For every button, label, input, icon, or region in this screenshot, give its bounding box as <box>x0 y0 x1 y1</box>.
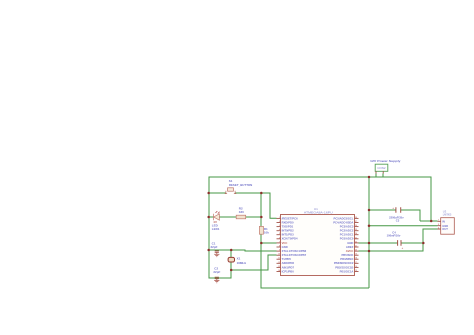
capacitor C1 <box>211 242 219 253</box>
wire reset node vertical through R1 down to bottom rail <box>261 193 369 288</box>
svg-text:25: 25 <box>355 229 357 231</box>
svg-text:PC1/ADC1: PC1/ADC1 <box>340 233 354 237</box>
junction at reset node / button row <box>260 192 263 195</box>
svg-text:2: 2 <box>279 221 280 223</box>
svg-text:T1/PD5: T1/PD5 <box>282 257 292 261</box>
junction dots <box>207 176 432 272</box>
svg-text:16MHz: 16MHz <box>237 261 247 265</box>
svg-text:LM7805: LM7805 <box>443 213 452 217</box>
svg-text:20: 20 <box>355 250 357 252</box>
capacitor C2 <box>213 267 220 279</box>
svg-text:3: 3 <box>279 225 280 227</box>
svg-text:11: 11 <box>278 258 280 260</box>
svg-text:PB1/OC1A: PB1/OC1A <box>340 269 354 273</box>
svg-text:14: 14 <box>278 269 280 272</box>
svg-text:RXD/PD0: RXD/PD0 <box>282 220 294 224</box>
svg-text:23: 23 <box>355 237 357 239</box>
U1 left pin numbers <box>278 217 280 272</box>
svg-text:OUT: OUT <box>442 227 448 231</box>
svg-text:8: 8 <box>279 246 280 248</box>
wire supply pin 2 <box>382 174 384 178</box>
junction at GND vertical / 7805 GND row <box>368 224 371 227</box>
wire AVCC row <box>359 250 424 252</box>
svg-text:PC2/ADC2: PC2/ADC2 <box>340 229 354 233</box>
wire crystal vertical <box>230 250 232 270</box>
svg-text:13: 13 <box>278 266 280 268</box>
wire GND vertical from supply <box>368 177 370 288</box>
svg-text:5: 5 <box>279 233 280 235</box>
svg-text:PB4/MISO: PB4/MISO <box>340 257 354 261</box>
svg-text:15: 15 <box>355 270 357 272</box>
junction at R1 bottom / VCC row <box>260 242 263 245</box>
svg-text:/RESET/PC6: /RESET/PC6 <box>282 216 299 220</box>
svg-text:2: 2 <box>438 224 439 226</box>
svg-text:22pF: 22pF <box>213 270 220 274</box>
svg-text:GND: GND <box>282 245 288 249</box>
svg-text:PB3/MOSI/OC2: PB3/MOSI/OC2 <box>334 261 354 265</box>
resistor R2 <box>236 207 246 219</box>
U1 right pin numbers <box>355 217 357 272</box>
svg-text:PB5/SCK: PB5/SCK <box>341 253 353 257</box>
ground below C2 <box>214 279 219 283</box>
junction at reset node / R2-R1 node <box>260 216 263 219</box>
svg-text:10: 10 <box>278 254 280 256</box>
wire reset button row left <box>209 192 227 194</box>
svg-text:19: 19 <box>355 254 357 256</box>
svg-text:26: 26 <box>355 225 357 227</box>
svg-text:INT0/PD2: INT0/PD2 <box>282 229 295 233</box>
junction at crystal bottom / XTAL2 row <box>230 269 233 272</box>
wire C3 row right down to IN <box>401 210 420 221</box>
svg-text:PC0/ADC0: PC0/ADC0 <box>340 237 354 241</box>
ground below C1 <box>214 252 219 256</box>
svg-text:IN: IN <box>442 219 445 223</box>
svg-text:PB2/SS/OC1B: PB2/SS/OC1B <box>335 265 353 269</box>
U1 right pin stubs <box>355 218 359 271</box>
svg-text:+: + <box>402 246 404 250</box>
wire right GND row right part <box>401 242 424 244</box>
svg-text:PC5/ADC5/SCL: PC5/ADC5/SCL <box>334 216 354 220</box>
crystal X1 <box>228 257 247 265</box>
svg-text:TXD/PD1: TXD/PD1 <box>282 225 294 229</box>
wire VCC row to chip <box>261 242 277 244</box>
wire top GND rail <box>209 177 432 221</box>
svg-text:+: + <box>392 206 394 210</box>
junction at left rail / C1 row <box>207 249 210 252</box>
svg-text:21: 21 <box>355 246 357 248</box>
svg-text:AIN0/PD6: AIN0/PD6 <box>282 261 295 265</box>
junction at crystal top / XTAL1 row <box>230 249 233 252</box>
svg-text:VCC: VCC <box>282 241 288 245</box>
connector 12V Power Supply <box>370 159 401 173</box>
svg-text:AVCC: AVCC <box>346 249 354 253</box>
junction at 12V drop / 7805 IN row <box>430 220 433 223</box>
svg-text:INT1/PD3: INT1/PD3 <box>282 233 295 237</box>
svg-text:7: 7 <box>279 241 280 243</box>
svg-text:1: 1 <box>279 217 280 219</box>
wire reset button row right to /RESET pin <box>235 193 277 218</box>
junction at 7805 OUT drop / C4 row <box>422 242 425 245</box>
U1 left pin names <box>282 216 307 273</box>
junction at supply GND pin / top rail <box>368 176 371 179</box>
svg-text:18: 18 <box>355 258 357 260</box>
svg-text:XTAL2/TOSC2/PB7: XTAL2/TOSC2/PB7 <box>282 253 307 257</box>
svg-text:XCK/T0/PD4: XCK/T0/PD4 <box>282 237 298 241</box>
wire 7805 GND row <box>369 225 438 227</box>
svg-text:1: 1 <box>438 220 439 222</box>
svg-text:330: 330 <box>239 210 244 214</box>
svg-text:LED1: LED1 <box>212 227 220 231</box>
svg-text:100mF/16v: 100mF/16v <box>387 234 401 238</box>
junction at left rail / LED row <box>207 216 210 219</box>
svg-text:GND: GND <box>347 241 353 245</box>
regulator U3 LM7805 <box>438 209 455 234</box>
svg-text:10k: 10k <box>264 231 269 235</box>
wire left rail <box>209 177 231 278</box>
svg-text:9: 9 <box>279 250 280 252</box>
svg-text:3: 3 <box>438 227 439 229</box>
LED LED1 <box>212 211 220 231</box>
U1 right pin names <box>333 216 354 273</box>
svg-text:CON2: CON2 <box>377 167 386 170</box>
wire 7805 OUT loop <box>423 229 438 251</box>
capacitor C4 <box>387 230 404 250</box>
svg-text:XTAL1/TOSC1/PB6: XTAL1/TOSC1/PB6 <box>282 249 307 253</box>
wire XTAL1 row with jog <box>209 250 277 251</box>
svg-text:6: 6 <box>279 237 280 239</box>
svg-text:12V Power Supply: 12V Power Supply <box>370 159 401 163</box>
wire supply pin 1 <box>375 174 377 178</box>
svg-text:22: 22 <box>355 241 357 243</box>
capacitor C3 <box>389 206 404 223</box>
svg-text:22pF: 22pF <box>211 245 218 249</box>
svg-text:ATMEGA8A-16PU: ATMEGA8A-16PU <box>304 210 333 214</box>
push button S1 <box>225 179 253 194</box>
svg-text:16: 16 <box>355 266 357 268</box>
svg-text:28: 28 <box>355 217 357 219</box>
svg-text:AREF: AREF <box>346 245 354 249</box>
junction at left rail / reset button row <box>207 192 210 195</box>
svg-text:12: 12 <box>278 262 280 264</box>
wire C3 row left <box>369 209 396 211</box>
svg-text:27: 27 <box>355 221 357 223</box>
svg-text:AIN1/PD7: AIN1/PD7 <box>282 265 295 269</box>
svg-text:PC3/ADC3: PC3/ADC3 <box>340 225 354 229</box>
svg-text:PC4/ADC4/SDA: PC4/ADC4/SDA <box>333 220 353 224</box>
resistor R1 <box>259 226 269 234</box>
svg-text:24: 24 <box>355 232 357 235</box>
wire LED / R2 row <box>209 216 262 218</box>
wire IN row <box>420 220 438 222</box>
svg-text:17: 17 <box>355 262 357 264</box>
IC U1 ATMEGA8A-16PU <box>281 207 355 276</box>
junction at GND vertical / AVCC row <box>368 250 371 253</box>
svg-text:C3: C3 <box>396 219 400 223</box>
wire right GND row left part <box>359 242 398 244</box>
svg-text:4: 4 <box>279 228 280 231</box>
wire XTAL2 route <box>231 255 277 270</box>
svg-text:ICP1/PB0: ICP1/PB0 <box>282 269 295 273</box>
svg-text:RESET_BUTTON: RESET_BUTTON <box>229 183 252 187</box>
junction at GND vertical / C3 row <box>368 209 371 212</box>
junction at GND vertical / right GND row <box>368 242 371 245</box>
U1 left pin stubs <box>277 218 281 271</box>
